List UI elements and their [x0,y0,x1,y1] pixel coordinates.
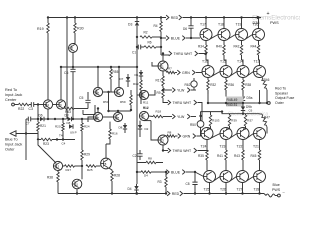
svg-text:R3: R3 [158,180,162,184]
svg-text:R103: R103 [212,119,220,123]
svg-text:R37: R37 [247,119,253,123]
wire T2 links [137,90,155,95]
junction y67 x119 [118,66,120,68]
wire T27 emitter [241,183,243,195]
resistor R20 [55,119,64,141]
label U9 [70,131,77,135]
wire bottom bus left [58,193,167,195]
wire YLW right stub ch1 [191,89,196,91]
wire THRUWHT top feed [161,54,169,56]
resistor R43 [234,140,244,171]
wire darlington link row1 [246,35,253,39]
svg-text:C8: C8 [186,182,190,186]
resistor R23 [38,138,75,146]
svg-text:D8: D8 [67,121,71,125]
svg-text:GRN: GRN [182,71,190,75]
resistor R4 [154,18,163,56]
wire YLW feed ch1 [162,89,172,91]
junction T5 mid [107,91,109,93]
svg-text:R8: R8 [168,131,172,135]
wire T13 collector [259,60,260,66]
svg-text:R38: R38 [47,176,53,180]
transistor T25 [204,171,216,192]
wire +V bus left segment [48,17,166,19]
resistor R50 R59 [103,90,132,110]
junction R4 blue [160,37,162,39]
wire output to terminal [255,102,268,104]
wire horizontal y67 [61,66,137,68]
wire T16 collector [206,60,208,66]
svg-text:R50: R50 [190,123,196,127]
svg-text:Center: Center [5,98,17,102]
svg-text:R9: R9 [157,91,161,95]
svg-text:D6: D6 [39,114,43,118]
svg-text:Red To: Red To [5,88,17,92]
watermark strip mid right [228,112,269,118]
wire T1 base left [152,62,158,66]
junction on +V bus [47,16,49,18]
transistor T13 [254,60,266,78]
wire C5 mesh [83,105,95,115]
connector RED top [166,15,182,20]
capacitor C1 [132,45,141,55]
svg-text:D7: D7 [120,77,124,81]
svg-text:T25: T25 [204,188,210,192]
resistor R44 [251,41,260,61]
resistor R27 [63,165,82,172]
svg-text:R2: R2 [144,31,148,35]
svg-text:T17: T17 [200,23,206,27]
label R12b [143,106,149,110]
wire x137 rail down [136,67,138,184]
connector blue input triangle [10,131,16,136]
wire T18 collector [223,18,225,29]
junction T11 bus [76,192,78,194]
svg-text:R17: R17 [156,79,162,83]
svg-text:R16: R16 [112,132,118,136]
svg-text:D8: D8 [65,114,69,118]
diode D7 [120,74,131,87]
watermark logo top right [252,15,302,22]
terminal speaker out [267,102,270,105]
wire T5b collector [97,67,99,87]
wire R30 to bus [74,18,76,24]
svg-text:Blue To: Blue To [5,138,18,142]
wire row2 emitters down [207,90,261,104]
svg-text:R13: R13 [133,82,139,86]
junction on +V bus [136,16,138,18]
wire ch2 pair emitters [103,116,114,118]
capacitor C2 [133,150,143,160]
resistor R13 [133,80,142,104]
trimpot R50b [190,112,204,136]
svg-text:T27: T27 [237,188,243,192]
capacitor C8 [186,172,198,195]
svg-text:D4: D4 [128,187,132,191]
resistor R41 [217,140,227,171]
wire GRN to T16 base [196,72,202,74]
resistor R8c [137,157,163,164]
wire +V bus right segment [183,17,260,19]
connector BLUE ch2 [166,170,185,175]
svg-text:T11: T11 [74,182,79,186]
label T4 C4 [59,134,66,146]
resistor R34 [198,41,207,61]
connector THRU WHT ch2 [163,148,197,153]
svg-text:D3: D3 [128,23,132,27]
svg-text:C7: C7 [26,122,30,126]
transistor T28 [254,171,266,192]
svg-text:R18: R18 [156,110,162,114]
transistor T17 [200,23,212,41]
label + PWS supply [253,11,280,25]
svg-text:+: + [267,11,270,17]
junction bus x137 [136,192,138,194]
diode D8c [119,123,128,133]
wire T10-T9 link [53,104,57,106]
wire R19 to bus [47,18,49,24]
label Red To Input Jack Center [5,88,22,102]
junction on +V bus [66,16,68,18]
svg-text:R29: R29 [84,153,90,157]
svg-text:T23: T23 [220,145,226,149]
resistor R40 [216,41,225,61]
capacitor D6 [183,18,194,39]
resistor R28 [109,168,121,194]
highlight box R48-51 [226,97,244,107]
svg-text:R19: R19 [37,27,44,31]
svg-text:R39: R39 [231,119,237,123]
resistor R25 [86,165,101,172]
svg-text:R48-49: R48-49 [227,98,238,102]
capacitor C3 [29,102,39,111]
svg-text:Outer: Outer [275,101,285,105]
diode D3 [128,18,139,68]
svg-text:T4a: T4a [115,115,120,119]
wire R30 to T7 [73,33,75,44]
junction y119 x73 [72,118,74,120]
transistor T27 [237,171,249,192]
terminal input jack center [12,103,15,106]
svg-text:R34: R34 [198,45,204,49]
wire darlington link row2 [230,72,237,76]
junction on +V bus [160,16,162,18]
resistor R4b [136,171,166,178]
svg-text:C4: C4 [62,142,66,146]
wire left rail x67 [66,18,68,120]
svg-text:R6: R6 [148,41,152,45]
diode D9b [241,103,252,114]
svg-text:THRU WHT: THRU WHT [173,149,193,153]
label Red To Speaker Output Fuse Outer [275,87,294,105]
resistor R9 [157,86,165,98]
wire T25 emitter [208,183,210,195]
terminal Blue PWS [264,183,286,197]
transistor T9 [56,100,65,109]
wire T3 collector down [162,145,164,152]
wire darlington link row3 [247,134,253,138]
transistor T15 [220,60,232,78]
resistor R16 [106,122,118,144]
resistor R21 [37,119,46,140]
wire y119 left [26,119,28,134]
svg-text:Input Jack: Input Jack [5,93,22,97]
capacitor C6 [64,67,76,119]
junction R23 right [56,138,58,140]
svg-text:R32: R32 [210,83,216,87]
junction input lower [37,118,39,120]
resistor R39 [226,114,237,129]
svg-text:BLUE: BLUE [171,170,181,174]
svg-text:R7: R7 [168,67,172,71]
wire input node down [37,105,39,120]
resistor R35 [198,140,208,171]
wire diagonal to T12 [38,141,56,163]
transistor T5b [93,87,102,96]
svg-text:R20: R20 [55,125,61,129]
junction x137 y67 [136,66,138,68]
resistor R45 [251,140,261,171]
svg-text:T21: T21 [253,145,259,149]
svg-text:T8: T8 [103,162,107,166]
wire darlington link row3 [211,134,220,138]
wire T4 collectors up [97,107,119,112]
wire T4b base [88,117,93,122]
svg-text:Speaker: Speaker [275,91,289,95]
junction on +V bus [257,16,259,18]
svg-text:D6: D6 [183,27,187,31]
transistor T7 [69,44,78,53]
svg-text:R44: R44 [251,45,257,49]
svg-text:R36: R36 [228,83,234,87]
svg-text:PWS: PWS [272,188,281,192]
diode D6b [39,114,45,122]
resistor R18 [149,110,163,118]
connector YLW ch2 [163,114,196,119]
svg-text:R25: R25 [87,168,93,172]
svg-text:R42: R42 [234,45,240,49]
resistor R6 [141,41,163,49]
svg-text:THRU WHT: THRU WHT [173,101,193,105]
svg-text:R40: R40 [216,45,222,49]
svg-text:C3: C3 [29,107,33,111]
resistor R55 [110,67,119,92]
wire T7 emitter down [72,53,74,68]
wire darlington link row4 [230,177,236,181]
svg-text:R24: R24 [84,125,90,129]
transistor T10 [43,100,52,109]
wire darlington link row2 [212,72,220,76]
svg-text:T26: T26 [220,188,226,192]
diode D8b [67,121,74,129]
svg-text:T3: T3 [160,138,164,142]
svg-text:T12: T12 [55,164,60,168]
wire THRUWHT top right [199,52,208,56]
resistor R19 [37,23,49,33]
junction y119 x55 [54,118,56,120]
wire T11 bottom [76,189,78,194]
svg-text:R11: R11 [143,101,149,105]
wire darlington link row1 [228,35,235,39]
svg-text:R8: R8 [148,157,152,161]
label Blue To Input Jack Outer [5,138,22,152]
svg-text:C1: C1 [132,51,136,55]
svg-text:R41: R41 [217,154,223,158]
svg-text:Input Jack: Input Jack [5,143,22,147]
svg-text:D2: D2 [145,127,149,131]
svg-text:R45: R45 [251,154,257,158]
svg-text:D1: D1 [135,73,139,77]
resistor R17 [156,71,165,86]
diode D4 [128,184,139,195]
svg-text:R55: R55 [113,70,119,74]
junction T9 top [60,66,62,68]
transistor T8 [101,158,112,169]
wire THRU ch2 right [198,149,208,152]
transistor T4a [113,112,122,121]
wire GRN ch2 to T24 [197,135,203,137]
transistor T22 [237,128,250,149]
resistor R29 [81,150,90,179]
wire darlington link row2 [247,72,253,76]
junction T7-C6 [72,66,74,68]
resistor R63 [64,107,74,114]
junction on +V bus [205,16,207,18]
svg-text:T28: T28 [254,188,260,192]
transistor T26 [220,171,232,192]
junction y119 x63 [62,118,64,120]
capacitor C7 [26,117,31,126]
transistor T12 [53,161,62,170]
transistor T21 [253,128,266,149]
resistor R22 [18,103,29,111]
svg-text:R43: R43 [234,154,240,158]
junction R28 bus [111,192,113,194]
wire BLUE ch2 right [186,171,196,173]
diode D1 [135,70,144,80]
transistor T16 [202,60,214,78]
svg-text:R30: R30 [77,27,84,31]
svg-text:T5b: T5b [95,90,100,94]
svg-text:R35: R35 [198,154,204,158]
wire T5a emitter down [107,92,132,112]
connector GRN ch2 [175,134,196,139]
transistor T5a [114,87,123,96]
svg-text:R38: R38 [245,83,251,87]
wire blue rail down [25,134,27,161]
wire darlington link row3 [230,134,237,138]
junction y67 x98 [97,66,99,68]
svg-text:T10: T10 [45,103,50,107]
junction y67 x111 [110,66,112,68]
svg-text:GRN: GRN [183,134,191,138]
capacitor C5 [79,92,91,109]
svg-text:R50: R50 [103,100,109,104]
wire T26 emitter [225,183,227,195]
wire T10 emitter down [47,109,49,120]
svg-text:THRU WHT: THRU WHT [174,52,194,56]
wire C7 to D6b [31,118,40,120]
junction blue node [25,132,27,134]
svg-text:R22: R22 [18,107,24,111]
svg-text:R23: R23 [43,142,49,146]
trimpot R62 [185,78,198,90]
transistor T4b [93,112,102,121]
transistor T23 [220,128,233,149]
junction input node [37,103,39,105]
resistor R3 [158,171,168,195]
connector RED bottom [167,191,183,196]
resistor R38 row2 [242,78,252,95]
wire darlington link row4 [247,177,254,181]
resistor R47 [260,114,271,134]
svg-text:Output Fuse: Output Fuse [275,96,294,100]
svg-text:C6: C6 [64,71,68,75]
svg-text:D8: D8 [119,126,123,130]
wire T19 collector [241,18,243,29]
label R11 R12 [143,101,149,110]
wire T9 emitter to R63 [64,106,88,109]
wire output tie y103 [208,102,255,104]
wire T8 collector [105,144,107,158]
resistor R42 [234,41,243,61]
svg-text:R47: R47 [264,116,270,120]
svg-text:BLUE: BLUE [171,36,181,40]
wire T3 base [144,121,158,140]
wire T1 emitter [166,70,168,72]
diode D2 [138,121,149,137]
wire input node to T10 base [38,104,44,106]
svg-text:R62: R62 [185,83,191,87]
svg-text:C2: C2 [133,154,137,158]
transistor T18 [218,23,230,41]
diode D8a [65,114,72,122]
svg-text:T19: T19 [236,23,242,27]
svg-text:PWS: PWS [270,21,279,25]
wire blue input [16,133,39,135]
transistor T24 [201,128,214,149]
resistor R103 [207,112,220,129]
diode D9a [241,90,253,103]
transistor T14 [237,60,249,78]
wire T20 collector [258,18,260,29]
svg-text:R4: R4 [154,24,158,28]
wire T9 collector up [60,67,62,100]
resistor R38 [47,171,59,194]
wire node to R23 row [37,134,39,141]
svg-text:T4b: T4b [95,115,100,119]
resistor R37 [243,114,253,129]
transistor T11 [72,179,82,189]
resistor R46 [262,77,270,103]
connector THRU WHT mid [163,98,197,105]
svg-text:YLW: YLW [177,88,185,92]
wire darlington link row1 [210,35,218,39]
junction on +V bus [190,16,192,18]
wire T15 collector [224,60,226,66]
svg-text:T1: T1 [160,64,164,68]
svg-text:R46: R46 [264,78,270,82]
wire T14 collector [242,60,244,66]
wire THRU mid right [198,103,203,122]
wire T28 emitter [258,183,260,195]
connector BLUE top [166,36,185,41]
resistor R30 [74,23,84,33]
svg-text:D9a: D9a [247,96,253,100]
wire BLUE feed [161,37,166,39]
svg-text:T5a: T5a [116,90,121,94]
wire T17 collector [205,18,207,29]
